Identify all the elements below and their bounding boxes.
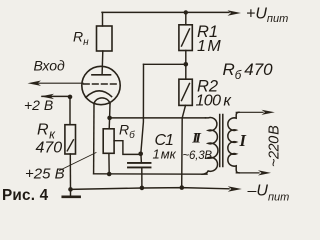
resistor R2 bbox=[179, 79, 192, 105]
svg-text:Вход: Вход bbox=[34, 58, 66, 74]
arrow 220V top bbox=[262, 110, 275, 115]
wire heater return y=174 bbox=[94, 173, 207, 175]
node dot rail R1 bbox=[184, 10, 188, 14]
resistor RБ bbox=[103, 129, 114, 154]
arrow 220V bottom bbox=[258, 170, 271, 175]
wire winding I top terminal bbox=[236, 111, 263, 113]
arrow +2V bbox=[41, 94, 55, 99]
wire heater right leg down bbox=[109, 104, 111, 118]
tube anode plate bbox=[92, 74, 111, 76]
wire winding I bottom terminal bbox=[236, 172, 259, 174]
wire RК lead down bbox=[69, 97, 71, 125]
tube heater arc bbox=[94, 98, 110, 104]
svg-text:Рис. 4: Рис. 4 bbox=[2, 187, 49, 204]
tube cathode arc bbox=[86, 91, 112, 98]
wire bottom rail bbox=[71, 188, 230, 190]
resistor R2 power slash bbox=[182, 84, 190, 101]
wire R1 to R2 bbox=[185, 51, 187, 80]
wire input (grid lead) bbox=[38, 82, 83, 84]
svg-text:1М: 1М bbox=[197, 38, 221, 55]
transformer winding I bbox=[228, 112, 239, 173]
resistor RК power slash bbox=[67, 140, 73, 151]
wire C1 bottom to rail bbox=[141, 167, 143, 187]
resistor R1 bbox=[179, 25, 192, 51]
arrow -Upit bbox=[228, 186, 242, 192]
node dot ground bbox=[68, 187, 73, 192]
arrow input bbox=[28, 81, 42, 86]
wire divider down to C1 node bbox=[141, 64, 144, 153]
resistor RК bbox=[65, 125, 76, 154]
node dot C1 top bbox=[138, 152, 143, 157]
ground stub bbox=[70, 189, 72, 196]
wire Rн lead from rail bbox=[102, 12, 104, 26]
wire Rн to anode bbox=[101, 51, 104, 75]
ground bar bbox=[63, 195, 80, 198]
transformer winding II bbox=[202, 118, 218, 175]
svg-text:I: I bbox=[239, 131, 247, 150]
svg-text:+2 В: +2 В bbox=[24, 97, 53, 113]
capacitor C1 bottom plate bbox=[128, 166, 151, 168]
wire divider junction left bbox=[144, 63, 186, 65]
annotation +25V pointer line bbox=[60, 153, 96, 171]
wire cathode node to transformer bbox=[110, 117, 206, 119]
wire node to C1 top plate bbox=[140, 154, 143, 163]
capacitor C1 top plate bbox=[128, 162, 151, 164]
wire R1 lead from rail bbox=[185, 12, 187, 24]
wire RБ tap to C1 node bbox=[114, 141, 139, 155]
tube VL1 envelope bbox=[82, 66, 120, 104]
wire RК top node bbox=[42, 95, 70, 97]
node dot cathode bbox=[107, 116, 112, 121]
svg-text:1мк: 1мк bbox=[153, 147, 177, 162]
arrow +Upit bbox=[228, 10, 242, 16]
svg-text:~220В: ~220В bbox=[267, 125, 283, 167]
node dot RК top bbox=[68, 95, 73, 100]
wire RБ bottom lead bbox=[108, 153, 110, 174]
node dot R2 rail bbox=[180, 185, 185, 190]
wire RК bottom to ground bbox=[69, 154, 71, 189]
tube grid (dashed) bbox=[84, 83, 120, 85]
svg-text:100к: 100к bbox=[196, 93, 233, 110]
transformer core bbox=[220, 115, 223, 167]
svg-text:~6,3В: ~6,3В bbox=[183, 150, 213, 162]
node dot R1 R2 junction bbox=[184, 62, 189, 67]
node dot C1 rail bbox=[140, 186, 145, 191]
wire R2 bottom to rail bbox=[182, 105, 186, 187]
svg-text:470: 470 bbox=[36, 140, 63, 157]
wire top rail bbox=[102, 11, 229, 13]
resistor R1 power slash bbox=[182, 29, 190, 46]
resistor Rн bbox=[97, 26, 113, 51]
svg-text:Rб470: Rб470 bbox=[223, 60, 274, 82]
wire RБ top lead bbox=[108, 118, 110, 129]
wire heater left leg down bbox=[93, 104, 95, 174]
svg-text:+25 В: +25 В bbox=[25, 166, 65, 183]
node dot RБ bottom bbox=[107, 172, 112, 177]
